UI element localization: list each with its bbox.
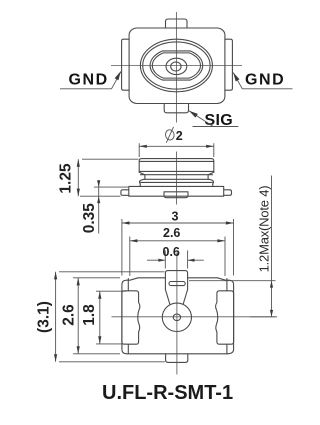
svg-text:0.6: 0.6	[163, 245, 180, 259]
cap step line 2	[141, 174, 213, 176]
centerline vertical (side view)	[176, 152, 178, 205]
signal lead bump under base	[164, 192, 188, 198]
body outline (bottom view)	[122, 278, 234, 354]
leader GND left	[60, 72, 121, 89]
centerline horizontal (top view)	[111, 65, 242, 67]
signal strip (bottom view)	[165, 271, 187, 290]
base plate	[129, 186, 224, 196]
flange mid line	[141, 181, 213, 183]
svg-text:2: 2	[176, 129, 183, 143]
base left tab	[121, 190, 129, 196]
center boss circle	[162, 303, 191, 331]
svg-text:2.6: 2.6	[61, 304, 78, 326]
fold notch bottom-right	[226, 344, 228, 354]
dimension 0.6	[147, 251, 204, 269]
dimension 1.2Max(Note 4)	[189, 176, 276, 317]
centerline horizontal (bottom view)	[112, 316, 278, 318]
center pin ring	[171, 62, 181, 71]
svg-text:GND: GND	[245, 72, 285, 89]
flange ring line	[145, 178, 208, 180]
dimension 2.6 horizontal	[130, 237, 225, 277]
top tab (mating key)	[166, 19, 188, 28]
fold notch bottom-left	[127, 344, 129, 354]
neck right	[208, 172, 214, 179]
dimension 1.25	[78, 159, 138, 196]
top view body	[129, 28, 225, 104]
bottom tab (SIG lead, top view)	[164, 104, 188, 113]
center contact housing ring	[166, 58, 187, 74]
svg-text:3: 3	[172, 210, 179, 224]
center pin hole	[173, 314, 180, 321]
left tab (GND lead, top view)	[122, 39, 130, 90]
outer shell ring 2	[143, 42, 210, 89]
dimension (3.1)	[56, 272, 165, 362]
dimension 2.6 vertical	[73, 278, 120, 354]
cap rim line	[139, 160, 214, 162]
flange left profile	[139, 179, 144, 186]
contact band inner contour	[152, 53, 200, 78]
cap step line 1	[139, 170, 214, 172]
base right tab	[224, 190, 232, 196]
phi-2 value text	[165, 127, 183, 143]
right tab (GND lead, top view)	[225, 39, 233, 90]
signal strip taper left	[165, 290, 170, 305]
bottom tab (bottom view)	[166, 354, 188, 363]
leader SIG	[189, 111, 238, 127]
contact band outer contour	[150, 51, 203, 80]
dimension phi-2	[139, 143, 214, 157]
fold notch top-right	[226, 279, 228, 291]
dimension 1.8	[96, 291, 127, 344]
neck left	[139, 172, 145, 179]
leader GND right	[233, 73, 292, 89]
svg-text:2.6: 2.6	[163, 226, 180, 240]
svg-text:U.FL-R-SMT-1: U.FL-R-SMT-1	[102, 382, 233, 404]
dimension 3	[122, 219, 234, 276]
fold notch top-left	[127, 279, 129, 291]
cap outline	[139, 159, 214, 173]
dimension 0.35	[94, 181, 128, 234]
svg-text:1.8: 1.8	[81, 304, 98, 326]
svg-text:1.2Max(Note 4): 1.2Max(Note 4)	[256, 186, 271, 273]
svg-text:GND: GND	[69, 72, 109, 89]
svg-text:(3.1): (3.1)	[36, 301, 53, 333]
strip slot	[169, 282, 185, 286]
centerline vertical (top view)	[175, 12, 177, 123]
right GND pad	[216, 291, 234, 344]
svg-text:0.35: 0.35	[81, 203, 98, 234]
signal strip taper right	[183, 290, 188, 305]
svg-text:1.25: 1.25	[58, 163, 75, 194]
outer shell ring 1	[140, 39, 212, 92]
left GND pad	[122, 291, 140, 344]
centerline vertical (bottom view)	[176, 253, 178, 375]
flange right profile	[208, 179, 213, 186]
